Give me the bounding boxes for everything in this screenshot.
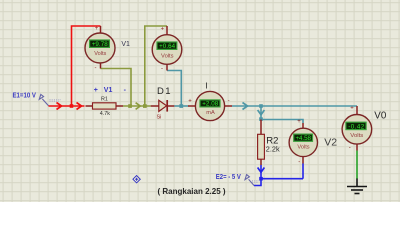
current arrow red 2 xyxy=(77,103,82,110)
ground xyxy=(347,179,367,194)
svg-text:2.2k: 2.2k xyxy=(266,145,280,154)
resistor R2 body xyxy=(258,134,265,159)
junction dot red node xyxy=(70,104,74,108)
svg-text:mA: mA xyxy=(206,110,215,116)
svg-text:E1=10 V: E1=10 V xyxy=(13,93,37,100)
voltmeter 2 display xyxy=(157,42,177,50)
diode D1 cathode bar xyxy=(166,100,168,112)
terminal flag E1 xyxy=(39,94,48,105)
resistor R1 pins xyxy=(86,105,124,107)
svg-text:D1: D1 xyxy=(157,86,171,97)
hidden text near E1 xyxy=(50,100,62,102)
wire: green net V0 to ground xyxy=(356,151,358,180)
svg-text:+: + xyxy=(94,87,98,94)
svg-text:Volts: Volts xyxy=(350,133,363,139)
svg-text:+9.78: +9.78 xyxy=(92,41,109,48)
voltmeter V1 pins xyxy=(100,26,102,69)
svg-text:+: + xyxy=(95,26,99,32)
svg-text:V1: V1 xyxy=(121,41,130,48)
hidden text near E2 xyxy=(252,181,260,183)
svg-text:Volts: Volts xyxy=(94,51,106,57)
junction dot teal R2 tap xyxy=(259,117,263,121)
svg-text:4.7k: 4.7k xyxy=(100,111,110,117)
svg-text:R1: R1 xyxy=(101,96,108,102)
current arrow teal right xyxy=(243,103,248,110)
svg-text:+2.08: +2.08 xyxy=(202,101,219,108)
svg-text:( Rangkaian 2.25 ): ( Rangkaian 2.25 ) xyxy=(158,187,226,196)
svg-text:V0: V0 xyxy=(374,110,387,121)
wire: olive net R1 to D1 xyxy=(101,26,168,106)
voltmeter V1 display xyxy=(90,40,110,48)
svg-text:+4.58: +4.58 xyxy=(295,135,311,142)
wire: blue net E2 xyxy=(254,164,303,186)
origin marker xyxy=(133,176,140,183)
svg-text:Volts: Volts xyxy=(297,145,310,151)
svg-text:Si: Si xyxy=(157,115,162,121)
voltmeter V2 pins xyxy=(302,123,304,164)
svg-text:+: + xyxy=(161,26,165,32)
voltmeter V0 body xyxy=(342,115,372,145)
svg-text:V2: V2 xyxy=(324,136,337,148)
voltmeter 2 pins xyxy=(166,26,168,71)
svg-text:+: + xyxy=(188,99,192,105)
junction dot olive node a xyxy=(128,104,132,108)
terminal flag E2 xyxy=(245,175,254,186)
diode D1 body xyxy=(159,100,167,111)
current arrow red 1 xyxy=(57,103,62,110)
diode D1 cathode pin xyxy=(167,105,174,107)
junction dot teal main xyxy=(259,104,263,108)
diode D1 anode pin xyxy=(151,105,159,107)
current arrow blue down xyxy=(258,168,265,173)
wire: red net E1 to R1 xyxy=(49,26,101,106)
svg-text:-: - xyxy=(161,66,163,72)
junction dot teal at D1 xyxy=(179,104,183,108)
resistor R1 body xyxy=(93,103,117,109)
ammeter I body xyxy=(195,91,224,120)
ammeter I pins xyxy=(188,105,232,107)
voltmeter V0 pins xyxy=(356,106,358,151)
svg-text:V1: V1 xyxy=(104,87,113,94)
voltmeter V2 body xyxy=(289,128,317,156)
junction dot blue xyxy=(259,177,263,181)
svg-text:+: + xyxy=(350,106,354,112)
svg-text:-: - xyxy=(228,98,230,104)
svg-text:I: I xyxy=(205,80,207,90)
svg-text:-: - xyxy=(349,145,351,151)
svg-text:+0.64: +0.64 xyxy=(159,43,176,50)
voltmeter V1 body xyxy=(85,33,115,63)
voltmeter V0 display xyxy=(346,122,366,130)
svg-text:Volts: Volts xyxy=(161,54,174,60)
svg-text:-: - xyxy=(298,160,300,166)
resistor R2 pins xyxy=(260,120,262,166)
ammeter I display xyxy=(200,100,220,108)
voltmeter 2 body xyxy=(152,35,182,65)
svg-text:+: + xyxy=(297,119,301,125)
current arrow olive xyxy=(136,103,141,110)
junction dot olive node b xyxy=(143,104,147,108)
svg-text:-: - xyxy=(95,65,97,71)
svg-text:E2= - 5 V: E2= - 5 V xyxy=(216,174,241,181)
current arrow teal down xyxy=(258,110,265,115)
wire: teal net D1 to ammeter and V0 xyxy=(167,71,357,124)
svg-text:-0.42: -0.42 xyxy=(348,123,365,130)
voltmeter V2 display xyxy=(294,134,313,142)
